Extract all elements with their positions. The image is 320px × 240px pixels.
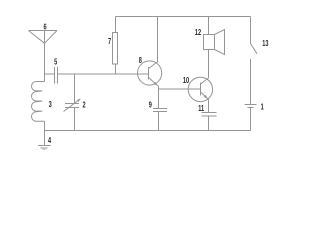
svg-text:1: 1 [261,104,264,112]
svg-text:6: 6 [44,24,47,32]
svg-text:2: 2 [82,102,85,110]
svg-text:13: 13 [262,40,268,48]
svg-text:4: 4 [48,137,51,145]
svg-text:11: 11 [198,105,204,113]
svg-text:5: 5 [54,59,57,67]
svg-text:12: 12 [195,29,201,37]
svg-text:10: 10 [183,77,189,85]
svg-text:3: 3 [49,101,52,109]
svg-text:8: 8 [139,57,142,65]
svg-text:7: 7 [108,38,111,46]
svg-text:9: 9 [149,102,152,110]
